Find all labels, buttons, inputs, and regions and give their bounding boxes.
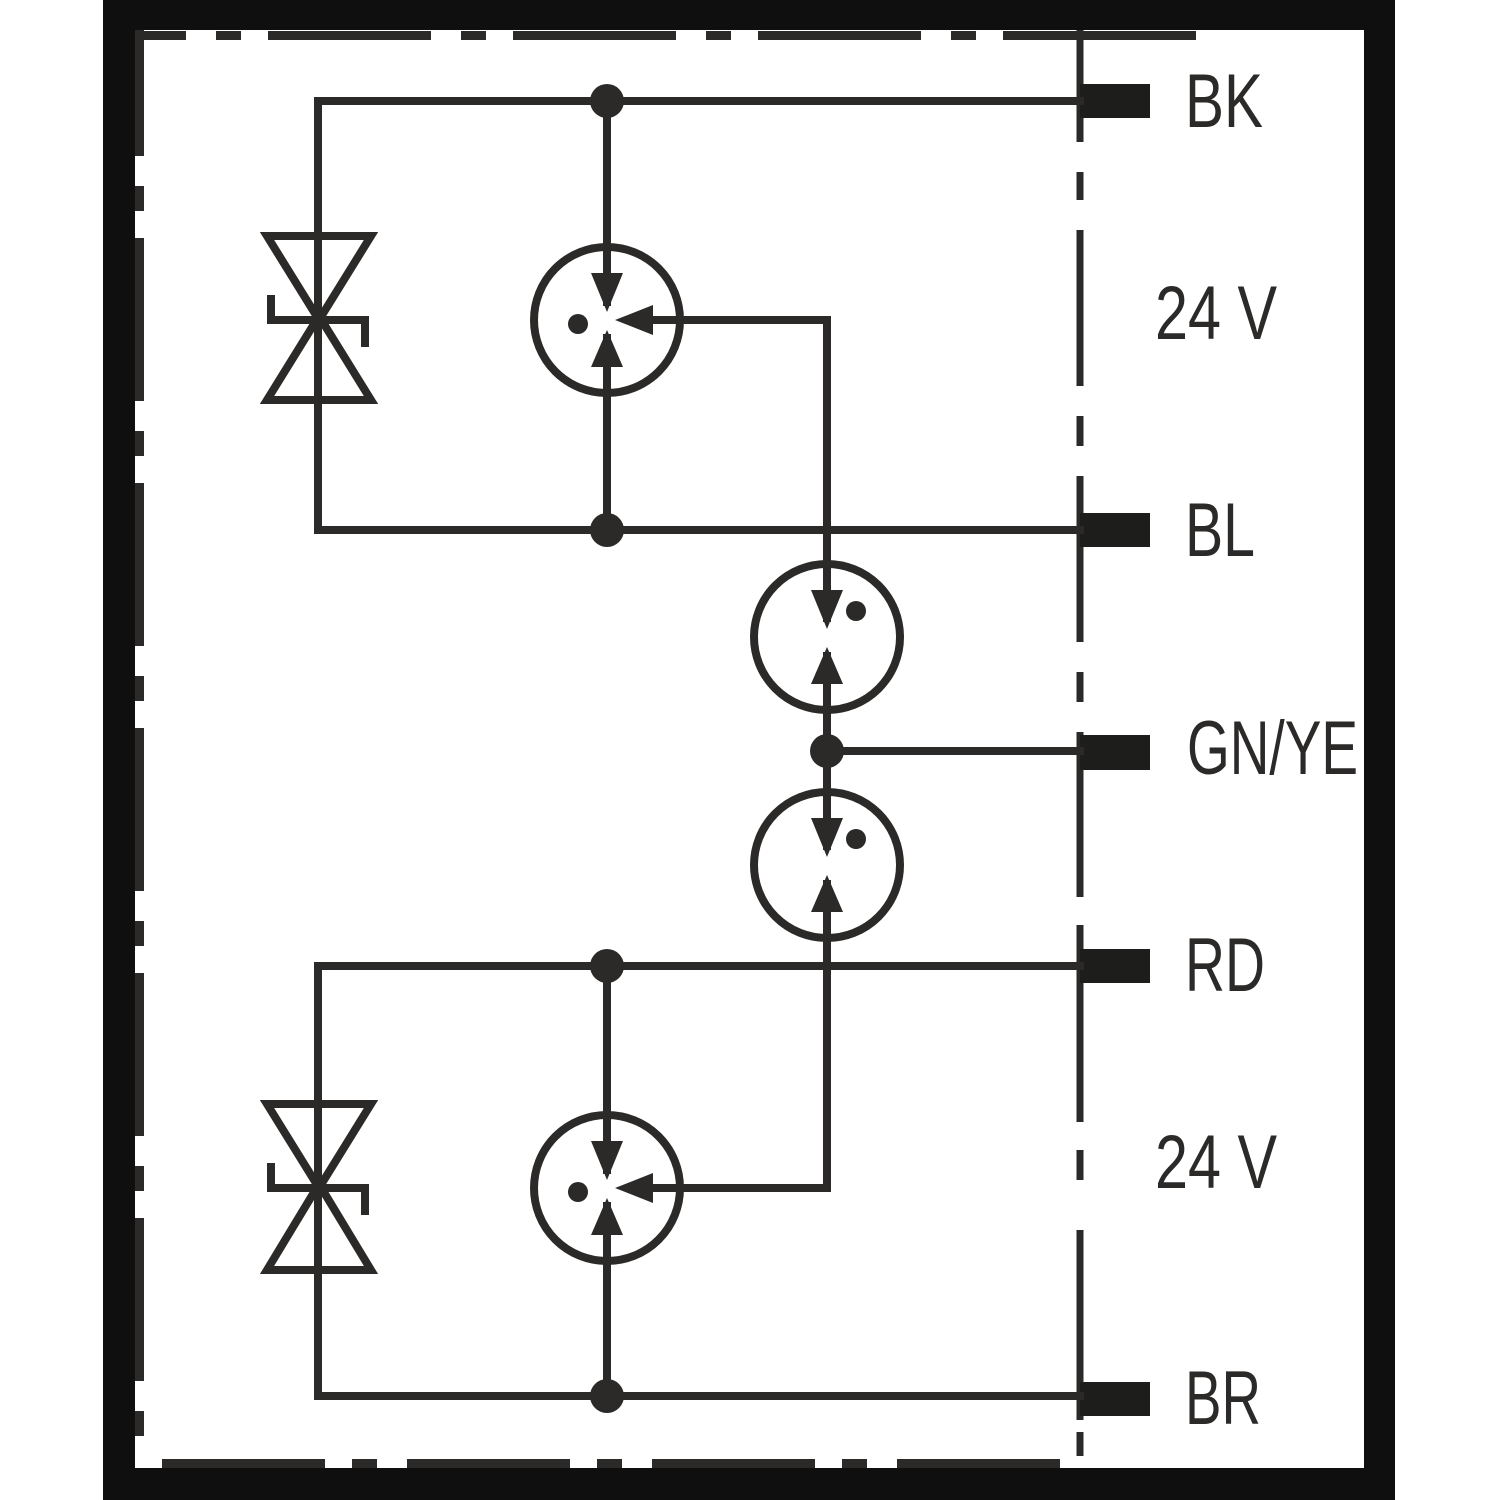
label GN/YE [1187, 706, 1358, 791]
wire link mid vertical [823, 652, 831, 1188]
terminal BK [1080, 84, 1150, 118]
dashed border left [135, 30, 144, 1460]
node GN/YE junction [810, 734, 844, 768]
label BR [1185, 1356, 1261, 1441]
node BL junction [590, 513, 624, 547]
frame top bar [103, 0, 1395, 30]
gas discharge tube F4 [534, 1115, 680, 1261]
label 24 V upper [1155, 271, 1277, 356]
svg-text:GN/YE: GN/YE [1187, 706, 1358, 791]
wire GN/YE [827, 747, 1084, 755]
terminal BL [1080, 513, 1150, 547]
svg-text:24 V: 24 V [1155, 1120, 1277, 1205]
suppressor diode V2 [267, 1104, 371, 1270]
node BK junction [590, 84, 624, 118]
gas discharge tube F2 [754, 564, 900, 710]
svg-text:RD: RD [1185, 923, 1265, 1008]
wire BK top box [318, 101, 1084, 530]
wire mid vertical upper [603, 101, 611, 530]
wire mid vertical lower [603, 966, 611, 1396]
gas discharge tube F1 [534, 247, 680, 393]
svg-text:24 V: 24 V [1155, 271, 1277, 356]
terminal BR [1080, 1382, 1150, 1416]
frame left bar [103, 0, 135, 1500]
wire link top horizontal [645, 320, 827, 622]
label RD [1185, 923, 1265, 1008]
frame bottom bar [103, 1468, 1395, 1500]
node BR junction [590, 1379, 624, 1413]
gas discharge tube F3 [754, 792, 900, 938]
boundary dash-dot line [1077, 30, 1084, 1456]
wire RD lower box [318, 966, 1084, 1396]
svg-text:BR: BR [1185, 1356, 1261, 1441]
label BL [1185, 488, 1255, 573]
terminal RD [1080, 949, 1150, 983]
wire link bottom horizontal [645, 1184, 831, 1192]
svg-text:BK: BK [1185, 59, 1263, 144]
svg-text:BL: BL [1185, 488, 1255, 573]
dashed border bottom [135, 1459, 1060, 1468]
wire BL [318, 526, 1084, 534]
dashed border top [135, 31, 1196, 40]
label 24 V lower [1155, 1120, 1277, 1205]
terminal GN/YE [1080, 735, 1150, 770]
suppressor diode V1 [267, 236, 371, 400]
frame right bar [1364, 0, 1395, 1500]
label BK [1185, 59, 1263, 144]
node RD junction [590, 949, 624, 983]
